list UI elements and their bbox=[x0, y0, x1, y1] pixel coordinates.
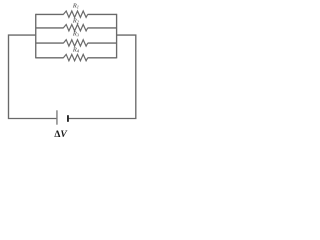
svg-text:R3: R3 bbox=[72, 31, 80, 38]
svg-text:ΔV: ΔV bbox=[54, 129, 68, 140]
svg-text:R1: R1 bbox=[72, 2, 79, 9]
svg-text:R4: R4 bbox=[72, 47, 80, 54]
svg-text:R2: R2 bbox=[72, 18, 80, 25]
